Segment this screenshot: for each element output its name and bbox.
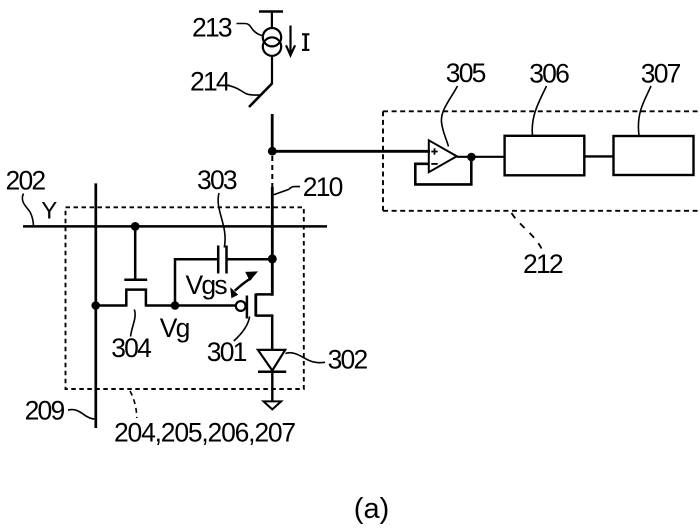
op-amp feedback loop <box>415 157 471 184</box>
svg-text:Vg: Vg <box>160 313 190 343</box>
leader 306 <box>532 86 546 136</box>
svg-text:Y: Y <box>41 198 57 225</box>
junction dot data line <box>268 254 277 263</box>
current arrow I <box>286 26 295 56</box>
svg-text:302: 302 <box>328 344 368 374</box>
wire node to op-amp input <box>272 150 430 153</box>
op-amp output wire <box>457 156 505 158</box>
capacitor 304 top lead <box>134 226 137 279</box>
block 306 <box>505 136 585 176</box>
wire switch to node <box>271 114 274 151</box>
svg-text:214: 214 <box>190 67 230 97</box>
wire capacitor 303 to data line <box>227 258 273 261</box>
svg-text:303: 303 <box>197 165 237 195</box>
block 307 <box>614 136 694 175</box>
label I <box>302 34 309 51</box>
wire 306 to 307 <box>584 155 613 157</box>
leader 214 <box>230 86 261 95</box>
transistor 301 channel bar <box>254 294 257 317</box>
dashed leader 212 <box>512 213 542 249</box>
svg-text:Vgs: Vgs <box>186 270 228 300</box>
svg-text:209: 209 <box>25 395 65 425</box>
svg-text:(a): (a) <box>354 493 389 525</box>
wire LED to ground <box>271 372 273 401</box>
op-amp 305 triangle <box>429 140 457 172</box>
leader 302 <box>286 353 326 363</box>
data line 210 dashed segment <box>271 156 273 188</box>
Vg wire left segment <box>95 304 126 307</box>
svg-text:307: 307 <box>641 59 681 89</box>
transistor 301 gate bar <box>246 296 249 319</box>
svg-text:212: 212 <box>523 249 563 279</box>
svg-text:305: 305 <box>446 58 486 88</box>
capacitor 303 left plate <box>217 246 220 274</box>
wire terminal to current source <box>271 12 273 30</box>
svg-text:204,205,206,207: 204,205,206,207 <box>114 418 295 448</box>
Vgs arrow <box>230 271 258 298</box>
transistor 301 source arm <box>256 293 272 296</box>
svg-text:202: 202 <box>6 166 46 196</box>
LED 302 triangle <box>258 350 285 371</box>
leader 303 <box>218 193 225 248</box>
LED 302 cathode bar <box>258 371 286 374</box>
ground symbol <box>264 401 282 409</box>
transistor 301 drain arm <box>256 316 272 351</box>
scan line Y <box>23 225 327 228</box>
readout dashed box 212 <box>383 111 700 211</box>
junction dot Vg capacitor branch <box>171 301 180 310</box>
junction dot Vg line 209 <box>91 301 100 310</box>
svg-text:306: 306 <box>529 59 569 89</box>
leader 209 <box>68 410 94 420</box>
leader 305 <box>441 86 457 147</box>
svg-text:304: 304 <box>111 333 151 363</box>
switch 214 blade <box>249 84 272 108</box>
leader 301 <box>234 317 250 342</box>
op-amp output dot <box>467 153 476 162</box>
current source 213 <box>263 28 281 56</box>
power line 209 <box>94 183 97 428</box>
svg-text:301: 301 <box>207 337 247 367</box>
op-amp plus input <box>431 148 437 154</box>
capacitor 304 gate bar <box>124 279 147 282</box>
leader 213 <box>237 24 264 37</box>
svg-text:210: 210 <box>303 172 343 202</box>
junction dot on Y line <box>131 222 140 231</box>
Vg wire right segment <box>146 304 237 307</box>
power terminal bar <box>259 10 283 13</box>
leader 210 <box>273 187 300 195</box>
capacitor 304 channel <box>126 290 146 307</box>
pixel circuit dashed box <box>66 207 304 389</box>
leader 307 <box>638 86 651 136</box>
op-amp minus input <box>431 163 437 165</box>
leader 202 <box>22 194 33 227</box>
capacitor 303 right plate <box>225 246 228 274</box>
svg-text:213: 213 <box>192 13 232 43</box>
dashed leader pixel box <box>130 391 137 418</box>
node junction dot <box>268 147 277 156</box>
capacitor 303 branch wire <box>175 259 218 305</box>
wire current source to switch <box>271 56 273 84</box>
data line 210 solid segment <box>271 187 274 296</box>
leader 304 <box>131 310 136 337</box>
transistor 301 gate circle <box>236 301 246 311</box>
